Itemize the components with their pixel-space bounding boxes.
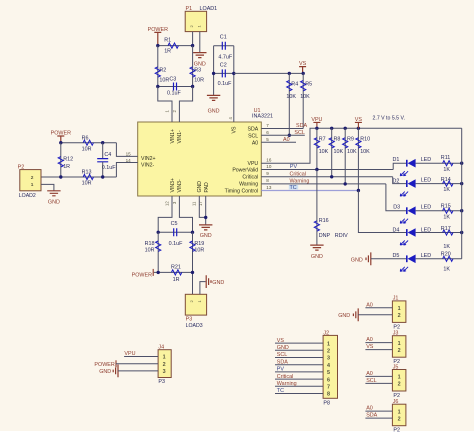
svg-text:2: 2	[398, 348, 401, 354]
net label TC highlight	[289, 185, 298, 190]
svg-text:LOAD1: LOAD1	[200, 6, 218, 12]
svg-text:D3: D3	[393, 205, 400, 211]
svg-text:6: 6	[327, 377, 330, 383]
svg-text:TC: TC	[290, 185, 297, 191]
svg-text:R12: R12	[63, 156, 73, 162]
svg-text:1: 1	[31, 182, 34, 188]
svg-text:R11: R11	[441, 155, 451, 161]
svg-text:2: 2	[163, 362, 166, 368]
svg-text:10K: 10K	[300, 94, 310, 100]
svg-text:8: 8	[327, 392, 330, 398]
connector J3 body	[392, 336, 406, 358]
svg-text:1R: 1R	[173, 277, 180, 283]
wire P1 pin2 to node	[192, 32, 194, 46]
junction node	[288, 134, 291, 137]
svg-text:2: 2	[398, 416, 401, 422]
resistor R3	[190, 67, 195, 77]
wire C1 row	[214, 45, 234, 47]
wire TC to D4	[358, 191, 406, 233]
svg-text:SCL: SCL	[294, 130, 305, 136]
svg-text:R8: R8	[334, 136, 341, 142]
wire J2 SCL	[275, 357, 323, 359]
resistor R9	[343, 138, 348, 148]
wire R5 column	[302, 73, 304, 128]
svg-text:2.7 V to 5.5 V.: 2.7 V to 5.5 V.	[373, 116, 405, 122]
svg-text:4.7uF: 4.7uF	[218, 55, 232, 61]
resistor R20	[443, 256, 453, 261]
ground symbol right of P3	[206, 275, 211, 288]
ground symbol under GND/PAD	[199, 225, 212, 230]
wire right rail	[461, 128, 463, 258]
svg-text:POWER: POWER	[51, 130, 71, 136]
svg-text:3: 3	[327, 356, 330, 362]
wire PV to D1	[393, 163, 407, 169]
svg-text:C1: C1	[220, 35, 227, 41]
power port VS (right)	[355, 122, 362, 128]
wire to VIN2- pin14	[116, 163, 137, 178]
junction node	[460, 209, 463, 212]
svg-text:PAD: PAD	[204, 182, 210, 193]
svg-text:R3: R3	[194, 67, 201, 73]
svg-text:RDIV: RDIV	[335, 233, 348, 239]
wire C5 row	[158, 231, 192, 233]
connector J5 body	[392, 370, 406, 392]
svg-text:R15: R15	[441, 204, 451, 210]
ground symbol (J4)	[113, 365, 118, 378]
svg-text:10R: 10R	[194, 78, 204, 84]
svg-text:7: 7	[327, 385, 330, 391]
svg-text:Warning: Warning	[277, 381, 297, 387]
junction node	[101, 141, 104, 144]
junction node	[302, 72, 305, 75]
resistor R17	[443, 230, 453, 235]
svg-text:1K: 1K	[443, 267, 450, 273]
svg-text:P3: P3	[186, 316, 193, 322]
svg-text:GND: GND	[200, 233, 212, 239]
power port VPU	[313, 122, 320, 128]
svg-text:R4: R4	[291, 82, 298, 88]
LED D4	[406, 229, 408, 236]
svg-text:SCL: SCL	[277, 352, 288, 358]
junction node	[460, 182, 463, 185]
junction node	[330, 127, 333, 130]
svg-text:D4: D4	[393, 227, 400, 233]
resistor R1	[168, 43, 178, 48]
svg-text:SDA: SDA	[248, 127, 259, 133]
op-amp U1 INA3221 body	[138, 122, 262, 196]
svg-text:0.1uF: 0.1uF	[167, 90, 181, 96]
wire to VIN1+	[158, 87, 172, 123]
resistor R19	[190, 241, 195, 251]
svg-text:1: 1	[398, 375, 401, 381]
connector J2 body	[323, 335, 337, 398]
svg-text:SCL: SCL	[366, 378, 377, 384]
wire R16 column	[316, 170, 318, 246]
svg-text:6: 6	[266, 130, 269, 135]
resistor R7	[314, 138, 319, 148]
ground symbol (J1)	[353, 308, 358, 321]
LED D1	[406, 160, 408, 167]
svg-text:10K: 10K	[286, 94, 296, 100]
svg-text:R21: R21	[171, 264, 181, 270]
svg-text:PV: PV	[277, 367, 285, 373]
junction node	[460, 231, 463, 234]
wire to VIN2+ pin15	[116, 143, 137, 157]
wire J2 Warning	[275, 385, 323, 387]
svg-text:A0: A0	[283, 137, 290, 143]
svg-text:GND: GND	[99, 369, 111, 375]
svg-text:SDA: SDA	[366, 413, 377, 419]
svg-text:VPU: VPU	[124, 351, 135, 357]
svg-text:LED: LED	[421, 178, 432, 184]
svg-text:P2: P2	[18, 164, 25, 170]
svg-text:R16: R16	[319, 218, 329, 224]
svg-text:R7: R7	[319, 136, 326, 142]
wire VPU pin	[261, 128, 317, 163]
resistor R15	[443, 208, 453, 213]
svg-text:D1: D1	[393, 157, 400, 163]
svg-text:R9: R9	[347, 136, 354, 142]
junction node	[357, 127, 360, 130]
wire P1 pin1 to gnd	[199, 32, 201, 53]
svg-text:R20: R20	[441, 252, 451, 258]
power port POWER (J4)	[115, 360, 117, 367]
ground symbol under P2	[47, 191, 60, 196]
svg-text:LOAD3: LOAD3	[186, 323, 203, 329]
svg-text:R18: R18	[145, 241, 155, 247]
connector P3 LOAD3 body	[185, 294, 206, 315]
svg-text:TC: TC	[277, 388, 284, 394]
connector J1 body	[392, 301, 406, 323]
svg-text:10K: 10K	[319, 149, 329, 155]
svg-text:Timing Control: Timing Control	[225, 188, 259, 194]
svg-text:15: 15	[126, 151, 132, 156]
svg-text:GND: GND	[351, 258, 363, 264]
capacitor C1	[222, 42, 225, 50]
wire P2 pin1 to gnd	[41, 184, 54, 190]
wire R13 row	[41, 176, 117, 178]
svg-text:11: 11	[192, 201, 197, 206]
svg-text:POWER: POWER	[148, 27, 168, 33]
junction node	[212, 72, 215, 75]
svg-text:GND: GND	[311, 254, 323, 260]
LED D2	[406, 180, 408, 187]
wire P3 pin1 to gnd	[200, 282, 206, 295]
svg-text:0.1uF: 0.1uF	[169, 241, 183, 247]
wire R10 column	[357, 128, 359, 190]
svg-text:10R: 10R	[82, 147, 92, 153]
wire R6 row	[61, 142, 117, 144]
wire Warning to D3	[386, 184, 407, 211]
svg-text:1K: 1K	[443, 214, 450, 220]
svg-text:10K: 10K	[347, 149, 357, 155]
svg-text:LOAD2: LOAD2	[19, 193, 36, 199]
wire C4 column top	[102, 143, 104, 159]
junction node	[191, 231, 194, 234]
svg-text:C3: C3	[169, 77, 176, 83]
svg-text:J3: J3	[393, 331, 399, 337]
resistor R16	[314, 221, 319, 231]
svg-text:Critical: Critical	[242, 175, 258, 181]
svg-text:1: 1	[398, 306, 401, 312]
svg-text:INA3221: INA3221	[252, 114, 273, 120]
junction node	[157, 271, 160, 274]
svg-text:LED: LED	[421, 157, 432, 163]
wire TC (selected)	[261, 190, 358, 192]
LED D5	[406, 255, 408, 262]
svg-text:VIN3-: VIN3-	[177, 179, 183, 193]
svg-text:P1: P1	[186, 6, 193, 12]
wire PAD stub	[205, 196, 207, 225]
svg-text:GND: GND	[338, 313, 350, 319]
svg-text:1R: 1R	[164, 49, 171, 55]
svg-text:A0: A0	[366, 302, 373, 308]
wire J4 pin2	[116, 363, 158, 365]
resistor R8	[329, 138, 334, 148]
junction node	[315, 127, 318, 130]
svg-text:A0: A0	[366, 406, 373, 412]
wire J1 pin1	[365, 307, 392, 309]
junction node	[288, 72, 291, 75]
svg-text:12: 12	[164, 201, 169, 206]
wire R21 row	[154, 271, 193, 273]
svg-text:R6: R6	[82, 136, 89, 142]
resistor R11	[443, 161, 453, 166]
resistor R13	[83, 174, 93, 179]
svg-text:D2: D2	[393, 178, 400, 184]
junction node	[156, 85, 159, 88]
wire R1 row	[158, 45, 193, 47]
junction node	[191, 44, 194, 47]
svg-text:J6: J6	[393, 399, 399, 405]
wire A0	[261, 141, 296, 143]
wire GND to D5	[371, 258, 407, 260]
resistor R5	[301, 81, 306, 91]
wire C2 row	[214, 72, 234, 74]
svg-text:VS: VS	[299, 61, 307, 67]
wire C1-C2 left column	[213, 46, 215, 96]
junction node	[101, 175, 104, 178]
ground symbol under C1/C2	[207, 95, 220, 100]
svg-text:VPU: VPU	[311, 117, 322, 123]
svg-text:R5: R5	[305, 82, 312, 88]
wire J1 pin2	[358, 314, 392, 316]
svg-text:P2: P2	[393, 428, 400, 434]
power port POWER	[57, 136, 64, 143]
LED D3	[406, 207, 408, 214]
wire SCL	[261, 134, 305, 136]
svg-text:SCL: SCL	[248, 133, 258, 139]
junction node	[191, 271, 194, 274]
svg-text:1: 1	[398, 341, 401, 347]
junction node	[191, 85, 194, 88]
capacitor C2	[222, 69, 225, 77]
wire Critical to D2	[393, 177, 407, 184]
svg-text:1R: 1R	[63, 164, 70, 170]
wire J4 pin1 VPU	[124, 356, 158, 358]
wire J2 TC	[275, 393, 323, 395]
svg-text:4: 4	[327, 363, 330, 369]
wire VIN3- stub	[179, 196, 192, 232]
connector P1 LOAD1 body	[185, 11, 206, 31]
svg-text:2: 2	[398, 313, 401, 319]
svg-text:7: 7	[266, 123, 269, 128]
svg-text:VPU: VPU	[248, 161, 259, 167]
wire SDA	[261, 128, 303, 130]
junction node	[156, 44, 159, 47]
svg-text:P2: P2	[393, 324, 400, 330]
resistor R4	[287, 81, 292, 91]
ground symbol left of D5	[366, 252, 371, 265]
svg-text:VIN2+: VIN2+	[141, 156, 156, 162]
svg-text:C5: C5	[171, 221, 178, 227]
svg-text:1K: 1K	[443, 244, 450, 250]
svg-text:Warning: Warning	[290, 178, 310, 184]
svg-text:Critical: Critical	[290, 171, 306, 177]
svg-text:GND: GND	[212, 280, 224, 286]
wire J2 PV	[275, 371, 323, 373]
svg-text:P8: P8	[323, 401, 330, 407]
svg-text:R17: R17	[441, 226, 451, 232]
svg-text:10K: 10K	[360, 149, 370, 155]
svg-text:10R: 10R	[194, 247, 204, 253]
svg-text:P3: P3	[158, 379, 165, 385]
wire C3 row	[158, 86, 193, 88]
wire VPU rail	[317, 127, 462, 129]
wire D4 to R17	[416, 232, 462, 234]
resistor R6	[83, 140, 93, 145]
wire J4 pin3	[118, 370, 158, 372]
svg-text:10K: 10K	[334, 149, 344, 155]
svg-text:C4: C4	[104, 152, 111, 158]
svg-text:R19: R19	[194, 241, 204, 247]
wire D2 to R14	[416, 183, 462, 185]
svg-text:GND: GND	[208, 109, 220, 115]
wire D3 to R15	[416, 210, 462, 212]
svg-text:VIN2-: VIN2-	[141, 162, 155, 168]
svg-text:LED: LED	[421, 205, 432, 211]
wire VIN3+ stub	[158, 196, 172, 232]
wire to VIN1-	[179, 87, 192, 123]
wire Warning	[261, 183, 386, 185]
wire J2 Critical	[275, 378, 323, 380]
svg-text:2: 2	[31, 175, 34, 181]
svg-text:VIN1+: VIN1+	[170, 129, 176, 144]
svg-text:1: 1	[327, 341, 330, 347]
svg-text:VS: VS	[232, 126, 238, 133]
wire J6 pin1	[365, 410, 392, 412]
svg-text:10R: 10R	[82, 181, 92, 187]
svg-text:Warning: Warning	[239, 182, 258, 188]
power port VS	[299, 67, 306, 74]
wire J5 pin2	[365, 382, 392, 384]
junction node	[232, 72, 235, 75]
svg-text:VIN1-: VIN1-	[177, 130, 183, 144]
wire J3 pin2	[365, 349, 392, 351]
wire J3 pin1	[365, 342, 392, 344]
wire J6 pin2	[365, 417, 392, 419]
svg-text:R14: R14	[441, 177, 451, 183]
junction node	[357, 189, 360, 192]
wire J2 SDA	[275, 364, 323, 366]
svg-text:J5: J5	[393, 364, 399, 370]
svg-text:SDA: SDA	[277, 359, 288, 365]
wire PV	[261, 169, 393, 171]
svg-text:A0: A0	[252, 140, 258, 146]
junction node	[344, 182, 347, 185]
svg-text:Critical: Critical	[277, 374, 293, 380]
svg-text:1: 1	[163, 355, 166, 361]
svg-text:13: 13	[266, 185, 272, 190]
wire R19 column	[192, 232, 194, 294]
resistor R18	[156, 241, 161, 251]
power port POWER	[154, 32, 161, 45]
wire R8 column	[331, 128, 333, 177]
wire J2 GND	[275, 349, 323, 351]
svg-text:VIN3+: VIN3+	[170, 178, 176, 193]
wire GND pad stub	[199, 196, 205, 217]
resistor R10	[356, 138, 361, 148]
svg-text:P2: P2	[393, 393, 400, 399]
svg-text:2: 2	[398, 382, 401, 388]
svg-text:DNP: DNP	[319, 233, 331, 239]
wire R18 column	[157, 232, 159, 272]
wire R3 column	[192, 46, 194, 87]
svg-text:10R: 10R	[159, 78, 169, 84]
junction node	[330, 175, 333, 178]
svg-text:SDA: SDA	[296, 123, 307, 129]
svg-text:VS: VS	[277, 338, 285, 344]
svg-text:D5: D5	[393, 253, 400, 259]
svg-text:J4: J4	[158, 345, 164, 351]
svg-text:J1: J1	[393, 296, 399, 302]
power port POWER (left)	[152, 269, 154, 276]
wire J2 VS	[275, 342, 323, 344]
capacitor C3	[174, 83, 177, 91]
svg-text:0.1uF: 0.1uF	[218, 81, 232, 87]
wire C4 column bottom	[102, 162, 104, 177]
junction node	[157, 231, 160, 234]
wire R7 column	[316, 128, 318, 169]
svg-text:0.1uF: 0.1uF	[102, 165, 116, 171]
svg-text:GND: GND	[197, 181, 203, 193]
svg-text:16: 16	[266, 158, 272, 163]
capacitor C4	[97, 159, 108, 162]
wire R4 column	[288, 73, 290, 135]
resistor R21	[171, 270, 181, 275]
svg-text:GND: GND	[48, 200, 60, 206]
junction node	[204, 216, 207, 219]
svg-text:1: 1	[398, 409, 401, 415]
junction node	[59, 175, 62, 178]
junction node	[460, 162, 463, 165]
wire R12 column	[60, 143, 62, 177]
connector J4 body	[158, 350, 171, 378]
wire R2 column	[157, 46, 159, 87]
svg-text:VS: VS	[355, 117, 363, 123]
svg-text:R2: R2	[159, 67, 166, 73]
svg-text:R13: R13	[82, 170, 92, 176]
wire R9 column	[344, 128, 346, 184]
resistor R2	[155, 67, 160, 77]
connector P2 LOAD2 body	[20, 170, 41, 191]
svg-text:R1: R1	[164, 37, 171, 43]
svg-text:5: 5	[266, 137, 269, 142]
junction node	[344, 127, 347, 130]
svg-text:3: 3	[163, 369, 166, 375]
svg-text:GND: GND	[277, 345, 289, 351]
junction node	[315, 168, 318, 171]
